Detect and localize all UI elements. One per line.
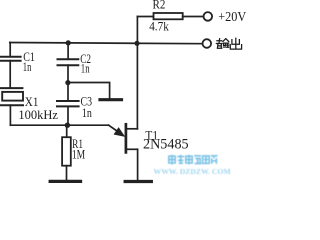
svg-text:1n: 1n <box>82 105 92 120</box>
wire C1 top lead <box>9 43 11 57</box>
crystal X1 <box>1 88 23 105</box>
wire X1 bottom lead <box>9 105 11 125</box>
wire C3 bottom lead <box>67 106 69 125</box>
wire R1 bottom lead <box>66 166 68 180</box>
svg-text:4.7k: 4.7k <box>149 19 169 34</box>
svg-text:2N5485: 2N5485 <box>143 137 189 153</box>
junction dot rail-C2 <box>66 40 71 45</box>
watermark line 1 (blue Chinese site name) <box>169 155 218 165</box>
wire C2 top lead <box>67 43 69 59</box>
junction dot C2-C3 node B <box>65 80 70 85</box>
wire R2 left lead <box>137 16 153 18</box>
svg-text:WWW. DZDZW. COM: WWW. DZDZW. COM <box>154 167 232 176</box>
wire source vertical <box>137 149 139 180</box>
wire top rail node A <box>10 43 203 44</box>
svg-text:1n: 1n <box>81 61 90 76</box>
junction dot gate node <box>65 123 70 128</box>
resistor R2 <box>154 13 183 19</box>
capacitor C1 <box>1 57 21 61</box>
ground T1 source <box>125 180 151 183</box>
svg-text:R2: R2 <box>153 0 166 12</box>
transistor T1 channel <box>125 124 128 152</box>
wire node B to mid ground <box>68 83 110 99</box>
wire C3 top lead <box>67 83 69 101</box>
svg-text:1M: 1M <box>72 147 86 162</box>
transistor T1 source lead <box>126 148 138 150</box>
label output (Chinese 输出) <box>216 38 241 49</box>
capacitor C2 <box>58 59 79 65</box>
resistor R1 <box>62 137 71 166</box>
terminal output <box>203 39 212 48</box>
terminal +20V <box>204 12 213 21</box>
transistor T1 gate arrowhead <box>115 129 124 136</box>
svg-text:+20V: +20V <box>218 9 246 24</box>
wire R2 right lead <box>183 16 204 18</box>
transistor T1 gate line <box>109 125 118 131</box>
ground mid <box>100 98 122 101</box>
wire drain vertical <box>136 17 138 129</box>
ground R1 <box>50 180 80 183</box>
svg-text:100kHz: 100kHz <box>18 107 58 122</box>
junction dot rail-drain <box>134 41 139 46</box>
capacitor C3 <box>57 101 79 106</box>
wire C1 to X1 <box>9 61 11 88</box>
transistor T1 drain lead <box>126 128 137 130</box>
wire gate horizontal <box>10 124 108 126</box>
wire C2 to node B <box>67 65 69 82</box>
svg-text:1n: 1n <box>23 59 32 74</box>
wire R1 top lead <box>66 125 68 137</box>
